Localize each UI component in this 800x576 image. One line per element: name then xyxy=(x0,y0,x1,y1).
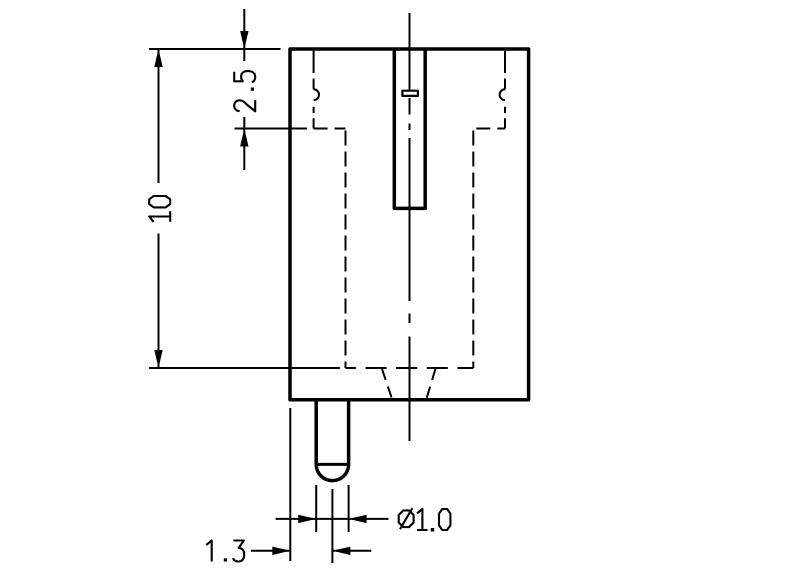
arrowhead dia left xyxy=(298,515,316,523)
pin tip chord xyxy=(316,463,348,466)
arrowhead 10 top xyxy=(154,49,162,67)
hidden entry funnel right xyxy=(427,369,436,398)
hidden cavity inner wall right xyxy=(472,129,474,369)
dimension line diameter 1.0 xyxy=(276,518,389,520)
dimension line 1.3 xyxy=(251,550,371,552)
contact window xyxy=(402,91,418,96)
dimension line 2.5 xyxy=(243,9,245,170)
hidden step right xyxy=(473,128,505,130)
label 2.5 xyxy=(234,71,255,111)
arrowhead dia right xyxy=(349,515,367,523)
extension line pin left xyxy=(315,485,317,532)
arrowhead 10 bottom xyxy=(154,350,162,368)
hidden cavity inner wall left xyxy=(345,129,347,369)
label dia 1.0 xyxy=(399,508,451,531)
centerline xyxy=(409,13,411,441)
label 10 xyxy=(149,196,170,222)
extension line pin right xyxy=(348,485,350,532)
hidden cavity outer wall right xyxy=(504,51,506,129)
extension line body left edge xyxy=(289,408,291,561)
hidden latch notch left xyxy=(314,89,319,100)
arrowhead 1.3 right xyxy=(332,547,350,555)
extension line pin center xyxy=(331,489,333,563)
contact slot xyxy=(394,49,425,208)
pin sides xyxy=(316,400,348,465)
hidden cavity outer wall left xyxy=(313,51,315,129)
extension line top edge xyxy=(149,48,281,50)
arrowhead 2.5 top xyxy=(240,31,248,49)
extension line cavity depth xyxy=(149,367,340,369)
pin tip dome xyxy=(316,464,348,480)
hidden latch notch right xyxy=(500,89,505,100)
arrowhead 2.5 bottom xyxy=(240,129,248,147)
hidden cavity bottom xyxy=(346,367,474,369)
extension line step depth xyxy=(235,128,308,130)
hidden step left xyxy=(314,128,346,130)
hidden entry funnel left xyxy=(382,369,392,398)
label 1.3 xyxy=(206,541,244,562)
body outline xyxy=(290,49,529,400)
dimension line 10 xyxy=(158,49,160,368)
arrowhead 1.3 left xyxy=(272,547,290,555)
